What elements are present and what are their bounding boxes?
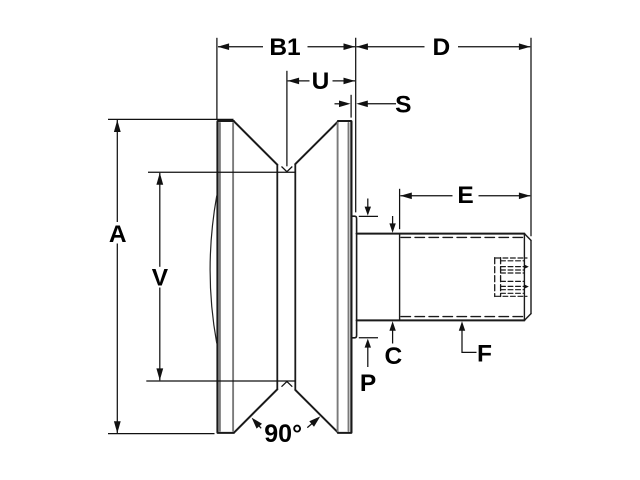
left face tangent line [219, 123, 221, 431]
C top arrowhead [389, 223, 395, 233]
end chamfer bottom diagonal [524, 314, 531, 321]
svg-text:F: F [477, 340, 492, 367]
hub boss (pilot) outline [352, 216, 356, 338]
wheel left flange top edge [218, 120, 234, 122]
hole thread line y=266.6 (dashed) [501, 266, 525, 268]
V bottom arrowhead [156, 368, 163, 380]
groove root left edge [276, 165, 278, 390]
90deg right leader line [307, 419, 317, 428]
wheel right face [350, 122, 352, 433]
svg-text:P: P [360, 370, 376, 397]
thread start line [399, 234, 401, 321]
B1/D shared extension line (hub face) [355, 38, 357, 213]
S dimension line left segment [335, 103, 346, 105]
U dimension line right segment [333, 80, 356, 82]
right face tangent line [348, 123, 350, 431]
svg-text:E: E [457, 182, 473, 209]
svg-text:C: C [384, 343, 402, 370]
chamfer start line [523, 234, 525, 321]
thread minor diameter top (dashed) [401, 236, 524, 238]
A dimension line lower segment [116, 244, 118, 434]
groove upper-left diagonal [234, 122, 277, 165]
D right arrowhead [519, 43, 531, 50]
groove root chamfer marks bottom [282, 382, 293, 387]
B1 left arrowhead [218, 43, 230, 50]
hole thread line y=258.0 (dashed) [496, 257, 528, 259]
P bottom arrowhead [365, 339, 371, 348]
threaded hole left end (dashed) [494, 258, 496, 297]
P top arrow tail [367, 199, 369, 208]
wheel right flange bottom edge [338, 432, 351, 434]
B1 right arrowhead [344, 43, 356, 50]
D dimension line right segment [458, 46, 530, 48]
hole thread line y=286.4 (dashed) [501, 285, 525, 287]
thread minor diameter bottom (dashed) [401, 316, 524, 318]
hole thread line y=273.0 (dashed) [501, 272, 525, 274]
wheel left flange bottom edge [218, 432, 234, 434]
right flange inner tangent line [337, 123, 339, 431]
shaft end face [530, 240, 532, 313]
B1 dimension line left segment [218, 46, 263, 48]
hole thread line y=260.8 (dashed) [501, 260, 525, 262]
P top extended edge [359, 215, 378, 217]
D right extension line (stud end) [530, 38, 532, 236]
A bottom arrowhead [114, 421, 121, 433]
B1 left extension line [216, 38, 218, 120]
A dimension line upper segment [116, 120, 118, 222]
end chamfer top diagonal [524, 234, 531, 241]
B1 dimension line right segment [308, 46, 356, 48]
F leader elbow [462, 330, 477, 353]
hole thread line y=293.3 (dashed) [501, 292, 525, 294]
S dimension line right segment [362, 103, 396, 105]
svg-text:90°: 90° [264, 420, 302, 448]
groove lower-left diagonal [234, 389, 277, 432]
P top arrowhead [365, 207, 371, 216]
S left extension line (wheel face) [350, 95, 352, 118]
left flange inner tangent line [232, 123, 234, 431]
thread chamfer mark upper [524, 265, 529, 269]
wheel left face [216, 122, 218, 433]
left face crown arc [210, 196, 217, 343]
A top arrowhead [114, 120, 121, 132]
V bottom extension line / groove root flat [146, 380, 295, 382]
V dimension line upper segment [159, 173, 161, 267]
P bottom arrow tail [367, 347, 369, 367]
90deg left arrowhead [252, 418, 262, 429]
90deg left leader line [254, 421, 261, 429]
F arrowhead [459, 321, 465, 331]
wheel right flange top edge [338, 120, 351, 122]
C bottom arrow tail [392, 330, 394, 344]
P bottom extended edge [359, 337, 378, 339]
S right arrowhead [356, 101, 368, 108]
E left arrowhead [400, 193, 412, 200]
groove root right edge [294, 164, 296, 390]
90deg right arrowhead [309, 416, 320, 426]
D dimension line left segment [356, 46, 424, 48]
thread relief line (dashed) [500, 258, 502, 297]
hole thread line y=270.0 (dashed) [501, 269, 525, 271]
thread chamfer mark lower [524, 284, 529, 288]
V top extension line / groove root flat [148, 171, 295, 173]
hole thread line y=281.4 (dashed) [501, 280, 525, 282]
A bottom extension line [108, 433, 215, 435]
V dimension line lower segment [159, 288, 161, 381]
svg-text:V: V [152, 264, 169, 291]
hole thread line y=296.3 (dashed) [496, 295, 528, 297]
shaft top edge [357, 233, 525, 235]
E dimension line right segment [479, 195, 531, 197]
U right arrowhead [344, 78, 356, 85]
groove center pointer arrowhead [282, 167, 293, 172]
S left arrowhead [339, 101, 351, 108]
groove lower-right diagonal [295, 390, 338, 433]
E dimension line left segment [400, 195, 452, 197]
E right arrowhead [519, 193, 531, 200]
hole thread line y=289.7 (dashed) [501, 289, 525, 291]
svg-text:B1: B1 [269, 34, 300, 61]
groove upper-right diagonal [295, 122, 338, 165]
svg-text:U: U [312, 68, 330, 95]
shaft bottom edge [357, 319, 525, 321]
D left arrowhead [356, 43, 368, 50]
V top arrowhead [156, 173, 163, 185]
U left extension line (groove center pointer) [286, 71, 288, 167]
svg-text:A: A [109, 221, 127, 248]
svg-text:S: S [395, 91, 411, 118]
U dimension line left segment [288, 80, 310, 82]
A top extension line [108, 118, 234, 120]
svg-text:D: D [432, 34, 450, 61]
U left arrowhead [288, 78, 300, 85]
C top arrow tail [392, 216, 394, 224]
C bottom arrowhead [389, 321, 395, 331]
E left extension line [399, 189, 401, 229]
